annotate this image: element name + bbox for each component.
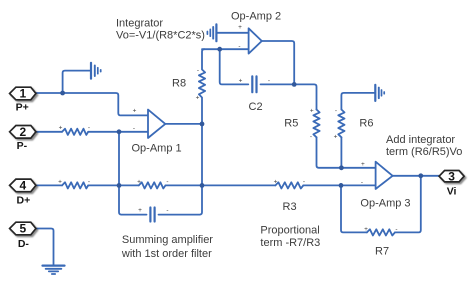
svg-text:D+: D+ <box>17 195 31 207</box>
svg-text:D-: D- <box>18 238 30 250</box>
svg-text:-: - <box>133 125 135 132</box>
junction node op-amp1 output <box>200 122 205 127</box>
svg-text:1: 1 <box>19 86 26 100</box>
resistor R7 <box>367 229 395 235</box>
svg-text:Op-Amp 1: Op-Amp 1 <box>132 143 182 155</box>
junction node P- input <box>117 129 122 134</box>
port 5 hexagon <box>10 222 36 235</box>
wire feedback R to output node <box>166 184 203 186</box>
svg-text:-: - <box>395 226 397 233</box>
resistor feedback R <box>139 182 166 188</box>
ground G3 <box>375 85 384 101</box>
junction node R6/op-amp3 plus <box>339 165 344 170</box>
junction node output/R7 <box>418 173 423 178</box>
svg-text:-: - <box>166 178 168 185</box>
ground G2 <box>207 24 216 41</box>
svg-text:+: + <box>361 161 365 168</box>
op-amp U1 triangle <box>148 110 165 138</box>
svg-text:+: + <box>133 108 137 115</box>
svg-text:-: - <box>335 108 337 115</box>
junction node output/R3 line <box>200 183 205 188</box>
op-amp U2 triangle <box>249 28 262 53</box>
port 2 hexagon <box>10 126 36 139</box>
wire D+ to node <box>88 184 139 186</box>
op-amp U3 triangle <box>376 162 393 189</box>
resistor D+ input <box>62 182 88 188</box>
wire feedback C to output node <box>159 185 203 214</box>
svg-text:-: - <box>166 207 168 214</box>
port 4 hexagon <box>10 179 36 192</box>
svg-text:-: - <box>361 179 363 186</box>
svg-text:Op-Amp 2: Op-Amp 2 <box>231 11 281 23</box>
wire inverting node vertical <box>119 132 147 215</box>
wire D+ net <box>36 184 63 186</box>
svg-text:+: + <box>239 78 243 85</box>
junction node P+/ground <box>60 91 65 96</box>
svg-text:Vo=-V1/(R8*C2*s): Vo=-V1/(R8*C2*s) <box>116 29 205 41</box>
svg-text:term (R6/R5)Vo: term (R6/R5)Vo <box>386 146 462 158</box>
wire op-amp 2 output loop <box>262 41 294 84</box>
svg-text:Vi: Vi <box>447 186 457 198</box>
svg-text:5: 5 <box>19 222 26 236</box>
svg-text:+: + <box>196 94 200 101</box>
wire R3 line left <box>202 184 275 186</box>
svg-text:-: - <box>268 78 270 85</box>
svg-text:with 1st order filter: with 1st order filter <box>121 248 212 260</box>
capacitor C2 <box>252 76 256 92</box>
wire P- to op-amp 1 minus <box>88 131 148 133</box>
svg-text:+: + <box>238 24 242 31</box>
svg-text:-: - <box>88 178 90 185</box>
svg-text:Proportional: Proportional <box>260 225 319 237</box>
wire op-amp 2 minus input <box>202 48 249 50</box>
svg-text:+: + <box>59 125 63 132</box>
port 3 hexagon <box>439 171 464 182</box>
junction node op-amp2 output <box>292 82 297 87</box>
wire R7 to output <box>395 176 421 233</box>
capacitor feedback C <box>150 208 154 222</box>
wire ground G2 to op-amp 2 plus <box>216 32 248 34</box>
svg-text:-: - <box>310 134 312 141</box>
svg-text:4: 4 <box>19 179 26 193</box>
svg-text:Integrator: Integrator <box>116 18 163 30</box>
wire R7 feedback loop <box>341 185 367 232</box>
junction node op-amp2 minus <box>217 47 222 52</box>
svg-text:-: - <box>88 125 90 132</box>
svg-text:+: + <box>274 178 278 185</box>
svg-text:+: + <box>58 178 62 185</box>
wire ground G3 to R6 <box>341 93 375 110</box>
junction node R3/R7 <box>339 183 344 188</box>
wire op-amp 1 output <box>165 123 202 125</box>
wire P+ to ground branch <box>63 71 91 93</box>
svg-text:P+: P+ <box>16 101 29 113</box>
svg-text:+: + <box>364 226 368 233</box>
junction node inverting/D+ <box>117 183 122 188</box>
svg-text:R8: R8 <box>172 77 186 89</box>
wire R6 bottom to node <box>340 137 342 168</box>
svg-text:Add integrator: Add integrator <box>386 134 455 146</box>
resistor R5 <box>313 110 319 138</box>
wire C2 branch down <box>220 49 249 84</box>
svg-text:Op-Amp 3: Op-Amp 3 <box>360 197 410 209</box>
svg-text:-: - <box>238 43 240 50</box>
ground G4 <box>43 266 65 274</box>
svg-text:Summing amplifier: Summing amplifier <box>122 234 213 246</box>
svg-text:+: + <box>137 178 141 185</box>
wire R5 bottom to op-amp 3 plus <box>317 137 376 168</box>
wire R3 to op-amp 3 minus <box>303 184 375 186</box>
svg-text:2: 2 <box>19 125 26 139</box>
svg-text:3: 3 <box>448 169 455 183</box>
svg-text:P-: P- <box>17 140 28 152</box>
svg-text:-: - <box>197 67 199 74</box>
resistor R3 <box>275 182 303 188</box>
wire C2 to op-amp 2 output node <box>261 83 295 85</box>
resistor R6 <box>338 110 344 138</box>
port 1 hexagon <box>10 87 36 100</box>
wire output node vertical with resistor R8 <box>199 49 205 185</box>
wire op-amp 3 output <box>393 175 440 177</box>
svg-text:term -R7/R3: term -R7/R3 <box>260 237 320 249</box>
resistor P- input <box>62 129 88 135</box>
ground G1 <box>91 63 101 79</box>
svg-text:R7: R7 <box>375 245 389 257</box>
wire P- net <box>36 131 62 133</box>
wire D- net <box>36 229 54 266</box>
wire op-amp2 output to R5 <box>294 84 316 109</box>
svg-text:R5: R5 <box>284 117 298 129</box>
svg-text:+: + <box>334 134 338 141</box>
svg-text:R6: R6 <box>359 117 373 129</box>
svg-text:R3: R3 <box>283 201 297 213</box>
svg-text:-: - <box>303 178 305 185</box>
svg-text:C2: C2 <box>249 101 263 113</box>
svg-text:+: + <box>138 207 142 214</box>
wire P+ net <box>36 93 148 115</box>
svg-text:+: + <box>310 108 314 115</box>
